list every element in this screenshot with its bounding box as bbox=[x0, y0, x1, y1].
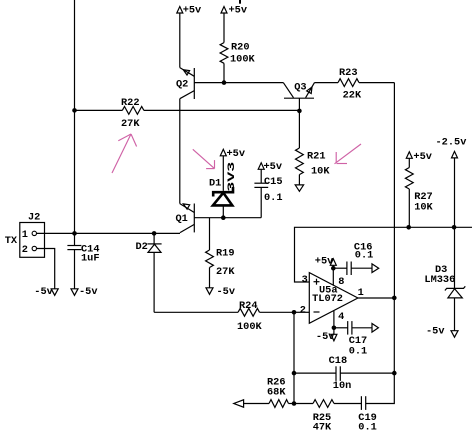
power -5v at D3 bbox=[426, 326, 458, 338]
svg-text:Q3: Q3 bbox=[294, 82, 306, 94]
transistor Q2 bbox=[176, 68, 194, 99]
svg-text:27K: 27K bbox=[216, 266, 235, 278]
svg-text:-5v: -5v bbox=[316, 331, 335, 343]
power -2.5v label bbox=[436, 137, 467, 228]
svg-text:+5v: +5v bbox=[413, 151, 432, 163]
wire feedback column bbox=[293, 312, 295, 403]
node pin4 junction bbox=[332, 326, 337, 331]
svg-text:4: 4 bbox=[338, 311, 344, 323]
op-amp U5a TL072 bbox=[300, 273, 364, 324]
capacitor C14 bbox=[67, 233, 99, 288]
svg-text:100K: 100K bbox=[237, 321, 263, 333]
power -5v at J2 pin2 bbox=[34, 286, 58, 298]
svg-text:3: 3 bbox=[302, 274, 308, 286]
node Q3 base junction bbox=[297, 109, 302, 114]
resistor R19 bbox=[206, 218, 236, 288]
wire R23 down to output column bbox=[393, 83, 395, 298]
wire pin2 stub bbox=[294, 311, 309, 313]
svg-text:C18: C18 bbox=[329, 355, 348, 367]
svg-text:+5v: +5v bbox=[229, 5, 248, 17]
annotation arrow at R22 bbox=[112, 134, 137, 173]
resistor R20 bbox=[220, 41, 255, 82]
svg-text:0.1: 0.1 bbox=[355, 250, 374, 262]
resistor R27 bbox=[405, 158, 433, 227]
diode D2 bbox=[136, 233, 162, 312]
power +5v for C15 bbox=[258, 161, 282, 173]
power -5v below R19 bbox=[206, 286, 235, 298]
svg-text:R23: R23 bbox=[339, 67, 358, 79]
power +5v rail for R20 bbox=[221, 5, 247, 43]
power +5v rail for Q2 emitter bbox=[177, 5, 201, 68]
svg-text:0.1: 0.1 bbox=[358, 421, 377, 433]
node Q2 base junction bbox=[222, 80, 227, 85]
svg-text:10K: 10K bbox=[414, 202, 433, 214]
svg-text:TL072: TL072 bbox=[312, 293, 343, 305]
resistor R24 bbox=[154, 300, 294, 333]
power arrow below R21 bbox=[295, 185, 303, 191]
wire J2 pin2 to -5v bbox=[37, 249, 55, 289]
node D1 anode junction bbox=[221, 215, 226, 220]
resistor R25 bbox=[294, 400, 361, 434]
cropped label fragment at top bbox=[239, 0, 241, 4]
wire output column lower bbox=[366, 298, 395, 404]
node pin8 junction bbox=[331, 266, 336, 271]
capacitor C15 bbox=[254, 169, 282, 217]
node R27 junction bbox=[406, 225, 411, 230]
svg-text:+5v: +5v bbox=[183, 5, 202, 17]
node feedback bottom junction bbox=[292, 401, 297, 406]
port arrow after C17 bbox=[372, 324, 378, 333]
value 3V3 (bold, rotated) bbox=[226, 162, 238, 192]
power +5v for D1 bbox=[220, 148, 245, 191]
svg-text:1uF: 1uF bbox=[81, 253, 100, 265]
svg-text:0.1: 0.1 bbox=[264, 192, 283, 204]
svg-text:D1: D1 bbox=[209, 178, 221, 190]
power +5v for R27 bbox=[406, 151, 432, 163]
port arrow into R26 bbox=[234, 400, 244, 407]
capacitor C18 bbox=[294, 355, 394, 392]
resistor R21 bbox=[296, 111, 331, 185]
annotation arrow at R21 bbox=[335, 144, 362, 164]
svg-text:D2: D2 bbox=[136, 241, 148, 253]
svg-text:0.1: 0.1 bbox=[349, 346, 368, 358]
svg-text:-5v: -5v bbox=[217, 286, 236, 298]
svg-text:R21: R21 bbox=[307, 151, 326, 163]
resistor R22 bbox=[121, 97, 144, 130]
pin 8 supply bbox=[315, 256, 337, 286]
node inverting input junction bbox=[292, 310, 297, 315]
node R22-left junction bbox=[72, 108, 77, 113]
wire Q2 base to Q3 collector bbox=[194, 82, 283, 84]
diode D3 LM336 bbox=[424, 227, 465, 330]
svg-text:-5v: -5v bbox=[34, 286, 53, 298]
node TX junction at C14 bbox=[72, 231, 77, 236]
svg-text:1: 1 bbox=[22, 229, 28, 241]
connector J2 bbox=[5, 212, 45, 258]
resistor R23 bbox=[315, 67, 395, 102]
capacitor C19 bbox=[358, 396, 377, 433]
svg-text:-5v: -5v bbox=[79, 286, 98, 298]
wire -2.5V net bbox=[295, 227, 472, 282]
port arrow after C16 bbox=[372, 264, 379, 273]
svg-text:LM336: LM336 bbox=[424, 274, 455, 286]
resistor R26 bbox=[244, 377, 294, 408]
svg-text:8: 8 bbox=[338, 276, 344, 288]
svg-text:-5v: -5v bbox=[426, 326, 445, 338]
transistor Q3 bbox=[283, 82, 314, 111]
wire Q1 base row bbox=[194, 217, 261, 219]
svg-text:10K: 10K bbox=[311, 166, 330, 178]
svg-text:27K: 27K bbox=[121, 118, 140, 130]
svg-text:+5v: +5v bbox=[227, 148, 246, 160]
power -5v at C14 bbox=[71, 286, 98, 298]
svg-text:2: 2 bbox=[22, 244, 28, 256]
svg-text:Q1: Q1 bbox=[176, 213, 188, 225]
capacitor C17 bbox=[334, 321, 372, 358]
svg-text:R20: R20 bbox=[231, 41, 250, 53]
svg-text:R22: R22 bbox=[121, 97, 140, 109]
node output junction bbox=[392, 296, 397, 301]
wire R22 row bbox=[75, 109, 300, 111]
zener diode D1 3V3 bbox=[209, 178, 233, 218]
svg-text:3V3: 3V3 bbox=[226, 162, 238, 192]
svg-text:47K: 47K bbox=[313, 421, 332, 433]
capacitor C16 bbox=[333, 242, 373, 275]
annotation arrow at D1 bbox=[193, 149, 215, 168]
node D2 junction bbox=[152, 231, 157, 236]
svg-text:TX: TX bbox=[5, 235, 18, 247]
svg-text:Q2: Q2 bbox=[176, 79, 188, 91]
node C18 right junction bbox=[392, 371, 397, 376]
wire Q2 collector to Q1 emitter bbox=[179, 99, 181, 204]
svg-text:22K: 22K bbox=[343, 90, 362, 102]
svg-text:68K: 68K bbox=[267, 386, 286, 398]
svg-text:+5v: +5v bbox=[315, 256, 334, 268]
svg-text:J2: J2 bbox=[28, 212, 40, 224]
svg-text:R19: R19 bbox=[216, 248, 235, 260]
svg-text:100K: 100K bbox=[230, 54, 256, 66]
node D3 junction bbox=[452, 225, 457, 230]
svg-text:10n: 10n bbox=[333, 380, 352, 392]
node C18 left junction bbox=[292, 371, 297, 376]
svg-text:C15: C15 bbox=[264, 176, 283, 188]
svg-text:2: 2 bbox=[300, 305, 306, 317]
wire main left vertical bbox=[74, 0, 76, 233]
svg-text:R24: R24 bbox=[239, 300, 258, 312]
transistor Q1 bbox=[176, 204, 195, 233]
wire op-amp output bbox=[358, 297, 394, 299]
svg-text:+5v: +5v bbox=[264, 161, 283, 173]
wire TX row bbox=[37, 232, 181, 234]
svg-text:-2.5v: -2.5v bbox=[436, 137, 467, 149]
pin 4 supply bbox=[316, 311, 337, 344]
